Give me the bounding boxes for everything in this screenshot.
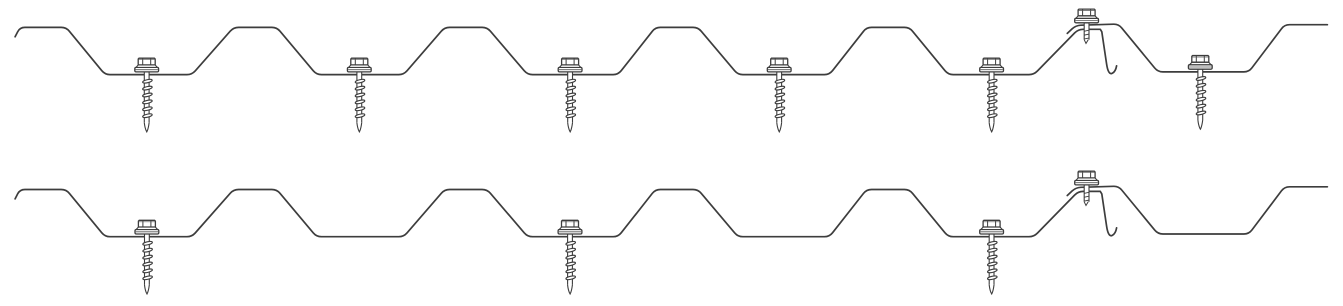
valley fastener screw, bottom row #2	[558, 220, 582, 294]
top row: overlapping roof sheet profile	[1067, 24, 1327, 72]
side-lap stitch screw, top row	[1075, 9, 1099, 43]
valley fastener screw, top row #3	[558, 58, 582, 132]
valley fastener screw, top row #2	[347, 58, 371, 132]
valley fastener screw, bottom row #1	[135, 220, 159, 294]
valley fastener screw, top row #6	[1188, 56, 1212, 130]
top row: lower roof sheet profile with hooked lap edge	[15, 27, 1117, 74]
bottom row: lower roof sheet profile with hooked lap edge	[15, 190, 1117, 237]
valley fastener screw, top row #4	[767, 58, 791, 132]
valley fastener screw, top row #1	[135, 58, 159, 132]
valley fastener screw, bottom row #3	[980, 220, 1004, 294]
valley fastener screw, top row #5	[980, 58, 1004, 132]
side-lap stitch screw, bottom row	[1075, 171, 1099, 205]
bottom row: overlapping roof sheet profile	[1067, 186, 1327, 234]
